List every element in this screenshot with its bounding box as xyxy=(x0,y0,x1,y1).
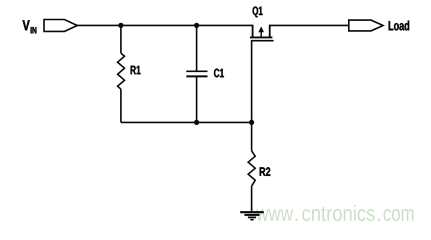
node junction bottom gate/R2 xyxy=(249,120,254,125)
resistor R1 xyxy=(118,25,125,122)
resistor R2 xyxy=(248,122,255,211)
Q1 body arrow shaft xyxy=(260,30,262,37)
node junction top R1 xyxy=(118,23,123,28)
Q1 drain stub xyxy=(269,25,271,37)
label C1 xyxy=(214,69,224,78)
label VIN xyxy=(23,20,37,33)
wire top rail from VIN to Q1 source xyxy=(77,24,252,26)
ground xyxy=(240,212,264,220)
transistor Q1 (MOSFET) xyxy=(250,25,274,41)
Q1 body arrow head xyxy=(258,26,264,32)
input port VIN xyxy=(44,20,77,32)
wire top rail from Q1 drain to Load xyxy=(270,24,349,26)
output port Load xyxy=(349,20,383,31)
Q1 channel bar xyxy=(250,36,272,38)
Q1 gate plate xyxy=(251,40,274,42)
label Q1 xyxy=(253,6,263,17)
label R2 xyxy=(260,167,271,176)
node junction top C1 xyxy=(194,23,199,28)
wire bottom rail xyxy=(121,121,252,123)
Q1 source stub xyxy=(252,25,254,37)
capacitor C1 xyxy=(186,25,207,122)
label Load xyxy=(389,21,409,31)
wire Q1 gate down to bottom rail xyxy=(251,41,253,123)
label R1 xyxy=(131,66,141,74)
watermark www.cntronics.com xyxy=(256,205,413,221)
node junction bottom C1 xyxy=(194,120,199,125)
